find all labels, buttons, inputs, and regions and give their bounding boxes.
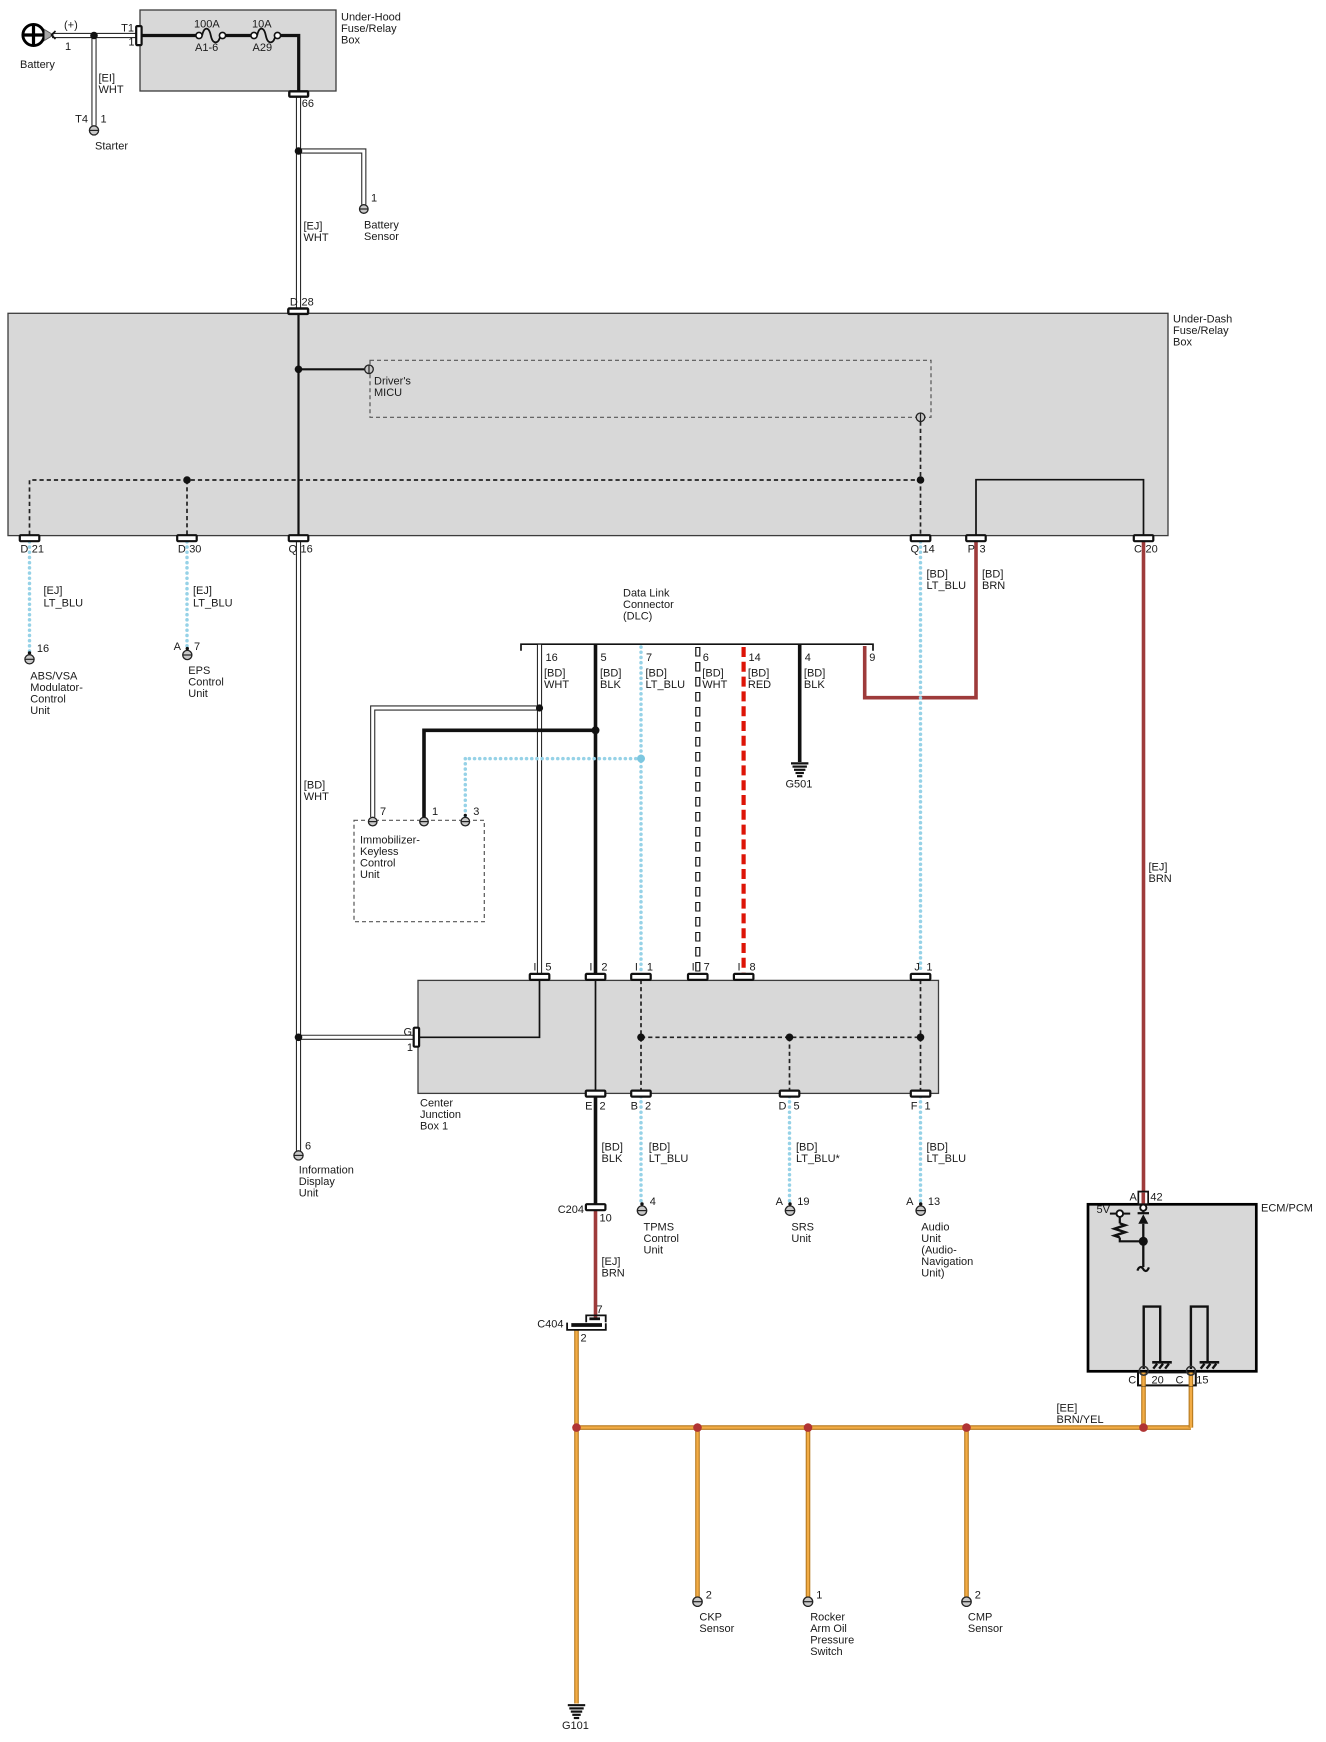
svg-text:[BD]: [BD] [702,668,723,680]
svg-text:A1-6: A1-6 [195,42,218,54]
svg-text:WHT: WHT [544,679,569,691]
svg-text:16: 16 [37,643,49,655]
svg-text:A: A [776,1196,784,1208]
svg-text:7: 7 [194,641,200,653]
svg-text:BRN: BRN [982,580,1005,592]
svg-text:LT_BLU: LT_BLU [44,598,84,610]
svg-text:I: I [738,961,741,973]
svg-text:BRN: BRN [1149,873,1172,885]
svg-text:[EJ]: [EJ] [44,585,63,597]
svg-text:Fuse/Relay: Fuse/Relay [1173,325,1229,337]
svg-text:I: I [692,961,695,973]
svg-text:T4: T4 [75,114,88,126]
svg-text:6: 6 [305,1141,311,1153]
svg-text:ECM/PCM: ECM/PCM [1261,1203,1313,1215]
svg-text:Control: Control [30,694,65,706]
svg-text:[BD]: [BD] [927,1142,948,1154]
svg-text:28: 28 [302,297,314,309]
svg-text:(+): (+) [64,20,78,32]
svg-text:Center: Center [420,1098,453,1110]
svg-text:I: I [533,961,536,973]
svg-text:G101: G101 [562,1720,589,1732]
svg-text:3: 3 [473,806,479,818]
svg-text:G: G [403,1027,412,1039]
svg-text:ABS/VSA: ABS/VSA [30,671,78,683]
svg-text:LT_BLU: LT_BLU [927,1153,967,1165]
svg-text:C: C [1175,1375,1183,1387]
svg-text:T1: T1 [121,23,134,35]
svg-text:[BD]: [BD] [544,668,565,680]
svg-text:Control: Control [360,858,395,870]
svg-text:EPS: EPS [188,665,210,677]
svg-text:[EI]: [EI] [99,73,116,85]
svg-text:3: 3 [980,544,986,556]
svg-text:Unit: Unit [644,1245,664,1257]
svg-text:A: A [1129,1192,1137,1204]
svg-text:Fuse/Relay: Fuse/Relay [341,23,397,35]
svg-text:WHT: WHT [702,679,727,691]
svg-text:Navigation: Navigation [921,1256,973,1268]
svg-text:14: 14 [923,544,935,556]
svg-text:[BD]: [BD] [600,668,621,680]
svg-text:2: 2 [601,961,607,973]
svg-text:Q: Q [288,544,297,556]
svg-text:WHT: WHT [304,232,329,244]
svg-text:1: 1 [371,193,377,205]
svg-text:Box: Box [1173,337,1192,349]
svg-text:15: 15 [1196,1375,1208,1387]
svg-text:[EJ]: [EJ] [304,221,323,233]
svg-text:Starter: Starter [95,141,128,153]
svg-text:1: 1 [65,41,71,53]
svg-text:[EJ]: [EJ] [193,585,212,597]
svg-text:Battery: Battery [20,59,55,71]
svg-text:(DLC): (DLC) [623,611,652,623]
svg-text:10A: 10A [252,19,272,31]
svg-text:A29: A29 [253,42,273,54]
svg-text:30: 30 [189,544,201,556]
svg-text:21: 21 [32,544,44,556]
svg-text:1: 1 [128,37,134,49]
svg-text:[BD]: [BD] [796,1142,817,1154]
svg-text:2: 2 [645,1101,651,1113]
svg-text:BRN: BRN [602,1268,625,1280]
svg-text:2: 2 [706,1590,712,1602]
svg-text:[BD]: [BD] [804,668,825,680]
svg-text:16: 16 [546,652,558,664]
svg-text:Rocker: Rocker [810,1612,845,1624]
svg-text:Sensor: Sensor [968,1623,1003,1635]
svg-text:4: 4 [805,652,811,664]
svg-text:BLK: BLK [602,1153,623,1165]
svg-text:Under-Hood: Under-Hood [341,12,401,24]
svg-text:8: 8 [750,961,756,973]
svg-text:D: D [290,297,298,309]
svg-text:10: 10 [600,1213,612,1225]
svg-text:Under-Dash: Under-Dash [1173,314,1232,326]
svg-text:42: 42 [1150,1192,1162,1204]
svg-text:Sensor: Sensor [699,1623,734,1635]
svg-text:Data Link: Data Link [623,588,670,600]
svg-text:66: 66 [302,98,314,110]
svg-text:1: 1 [816,1590,822,1602]
svg-text:Modulator-: Modulator- [30,682,83,694]
svg-text:C: C [1128,1375,1136,1387]
svg-text:G501: G501 [786,779,813,791]
svg-text:SRS: SRS [791,1222,814,1234]
svg-text:19: 19 [797,1196,809,1208]
svg-text:I: I [635,961,638,973]
svg-text:Unit: Unit [791,1233,811,1245]
svg-text:LT_BLU*: LT_BLU* [796,1153,841,1165]
svg-text:D: D [178,544,186,556]
svg-text:[BD]: [BD] [748,668,769,680]
svg-text:Connector: Connector [623,599,674,611]
svg-text:E: E [585,1101,592,1113]
svg-text:14: 14 [749,652,761,664]
svg-text:7: 7 [380,806,386,818]
svg-text:[BD]: [BD] [304,780,325,792]
svg-text:Unit: Unit [360,869,380,881]
svg-text:MICU: MICU [374,387,402,399]
svg-text:Sensor: Sensor [364,231,399,243]
svg-text:F: F [911,1101,918,1113]
svg-text:5: 5 [794,1101,800,1113]
svg-text:LT_BLU: LT_BLU [193,598,233,610]
svg-text:Immobilizer-: Immobilizer- [360,835,420,847]
svg-text:4: 4 [650,1196,656,1208]
svg-text:[EJ]: [EJ] [1149,862,1168,874]
svg-text:Q: Q [910,544,919,556]
svg-text:P: P [968,544,975,556]
svg-text:D: D [20,544,28,556]
svg-text:A: A [174,641,182,653]
svg-text:Unit: Unit [921,1233,941,1245]
svg-text:100A: 100A [194,19,220,31]
svg-text:Arm Oil: Arm Oil [810,1623,847,1635]
svg-text:[BD]: [BD] [649,1142,670,1154]
svg-text:[BD]: [BD] [646,668,667,680]
svg-text:BLK: BLK [804,679,825,691]
svg-text:C204: C204 [558,1204,584,1216]
svg-text:B: B [631,1101,638,1113]
svg-text:5V: 5V [1097,1204,1111,1216]
svg-text:TPMS: TPMS [644,1222,675,1234]
svg-text:I: I [589,961,592,973]
svg-text:Unit: Unit [299,1188,319,1200]
svg-text:20: 20 [1152,1375,1164,1387]
svg-text:WHT: WHT [99,84,124,96]
svg-text:C404: C404 [537,1319,563,1331]
svg-text:Box: Box [341,35,360,47]
svg-text:BRN/YEL: BRN/YEL [1057,1414,1104,1426]
svg-text:LT_BLU: LT_BLU [649,1153,689,1165]
svg-text:1: 1 [925,1101,931,1113]
svg-text:2: 2 [975,1590,981,1602]
svg-text:RED: RED [748,679,771,691]
svg-text:Battery: Battery [364,220,399,232]
svg-text:CKP: CKP [699,1612,722,1624]
svg-text:Switch: Switch [810,1646,842,1658]
svg-text:2: 2 [600,1101,606,1113]
svg-text:20: 20 [1146,544,1158,556]
svg-text:Box 1: Box 1 [420,1121,448,1133]
svg-text:Driver's: Driver's [374,376,411,388]
svg-text:1: 1 [926,961,932,973]
svg-text:Keyless: Keyless [360,846,399,858]
svg-text:WHT: WHT [304,791,329,803]
svg-text:16: 16 [301,544,313,556]
svg-text:Pressure: Pressure [810,1635,854,1647]
svg-text:7: 7 [597,1304,603,1316]
svg-text:[EJ]: [EJ] [602,1256,621,1268]
svg-text:1: 1 [647,961,653,973]
svg-text:BLK: BLK [600,679,621,691]
svg-text:9: 9 [869,652,875,664]
svg-text:Display: Display [299,1176,336,1188]
svg-text:Unit: Unit [188,688,208,700]
svg-text:[BD]: [BD] [927,569,948,581]
svg-text:LT_BLU: LT_BLU [646,679,686,691]
svg-text:Unit): Unit) [921,1268,944,1280]
svg-text:5: 5 [601,652,607,664]
svg-text:6: 6 [703,652,709,664]
svg-text:1: 1 [101,114,107,126]
svg-text:Unit: Unit [30,705,50,717]
svg-text:1: 1 [407,1042,413,1054]
svg-text:C: C [1134,544,1142,556]
svg-text:Information: Information [299,1165,354,1177]
svg-text:7: 7 [646,652,652,664]
svg-text:LT_BLU: LT_BLU [927,580,967,592]
svg-text:Control: Control [644,1233,679,1245]
svg-text:J: J [914,961,920,973]
svg-text:(Audio-: (Audio- [921,1245,957,1257]
svg-text:[BD]: [BD] [602,1142,623,1154]
svg-text:7: 7 [704,961,710,973]
svg-text:Junction: Junction [420,1109,461,1121]
svg-text:1: 1 [432,806,438,818]
svg-text:[EE]: [EE] [1057,1403,1078,1415]
svg-text:[BD]: [BD] [982,569,1003,581]
svg-text:13: 13 [928,1196,940,1208]
svg-text:A: A [906,1196,914,1208]
svg-text:D: D [779,1101,787,1113]
svg-text:2: 2 [581,1333,587,1345]
svg-text:5: 5 [545,961,551,973]
svg-text:CMP: CMP [968,1612,992,1624]
svg-text:Control: Control [188,677,223,689]
svg-text:Audio: Audio [921,1222,949,1234]
